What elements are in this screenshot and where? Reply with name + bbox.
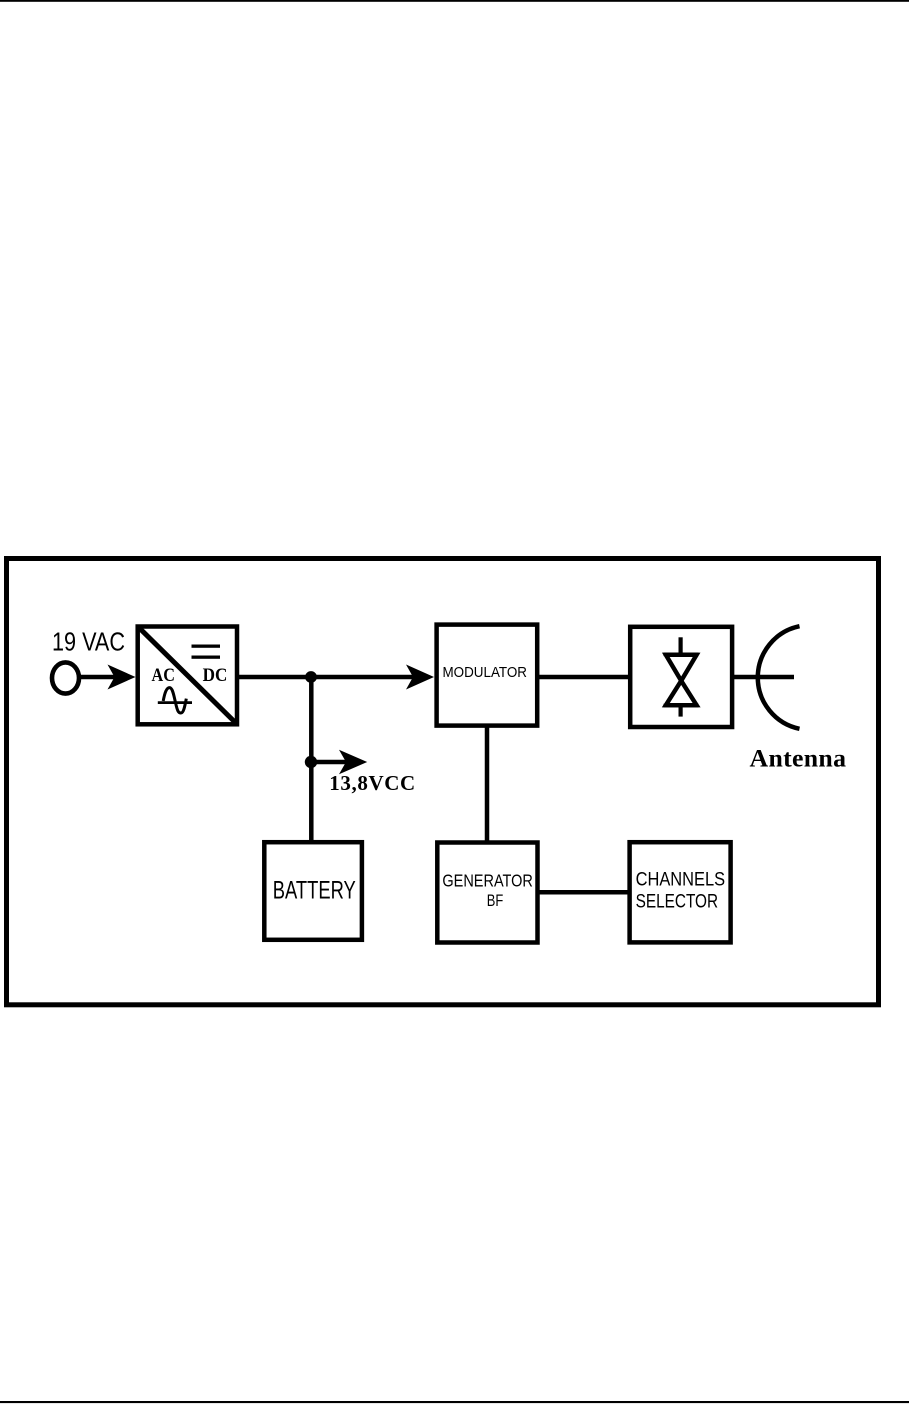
svg-text:Antenna: Antenna <box>750 744 847 773</box>
wire converter to modulator <box>239 675 414 680</box>
wire junction 1 to battery <box>309 677 314 841</box>
svg-text:CHANNELS: CHANNELS <box>636 869 726 891</box>
wire input to converter <box>79 675 117 680</box>
modulator box <box>437 625 538 726</box>
arrowhead 13.8VCC <box>339 750 367 775</box>
bottom rule <box>0 1401 909 1403</box>
arrowhead into converter <box>108 665 136 690</box>
node junction 2 <box>305 756 317 768</box>
svg-text:13,8VCC: 13,8VCC <box>329 771 415 795</box>
diode D1 bottom lead <box>678 707 682 717</box>
wire diode box to antenna <box>732 675 794 680</box>
AC sine symbol wave <box>163 688 186 713</box>
diode box <box>630 627 732 727</box>
wire modulator to diode box <box>537 675 630 680</box>
svg-text:BATTERY: BATTERY <box>273 876 356 904</box>
AC sine symbol baseline <box>158 701 192 704</box>
wire generator to channels selector <box>538 890 629 895</box>
node junction 1 <box>305 671 317 683</box>
svg-text:DC: DC <box>203 665 228 686</box>
diode D1 symbol top lead <box>678 637 682 653</box>
AC/DC converter U1 box <box>138 627 237 725</box>
svg-text:AC: AC <box>152 665 175 686</box>
antenna arc <box>758 626 800 729</box>
diagram frame <box>7 559 879 1005</box>
DC symbol bar 2 <box>192 656 221 659</box>
DC symbol bar 1 <box>192 645 221 648</box>
generator BF box <box>437 843 537 943</box>
channels selector box <box>630 842 731 942</box>
top rule <box>0 0 909 2</box>
wire modulator to generator BF <box>485 726 490 841</box>
diode D1 top bar <box>664 652 699 656</box>
svg-text:SELECTOR: SELECTOR <box>636 891 719 913</box>
svg-text:19 VAC: 19 VAC <box>52 629 125 657</box>
wire 13.8VCC branch <box>311 760 346 765</box>
svg-text:BF: BF <box>487 892 504 910</box>
connector J1 (19 VAC input) <box>52 662 79 693</box>
diode D1 upper triangle <box>666 655 697 681</box>
converter diagonal <box>139 628 236 723</box>
svg-text:GENERATOR: GENERATOR <box>442 871 533 891</box>
arrowhead into modulator <box>406 665 434 690</box>
diode D1 lower triangle <box>666 681 697 705</box>
diode D1 bottom bar <box>664 704 699 708</box>
svg-text:MODULATOR: MODULATOR <box>443 665 528 681</box>
battery box <box>264 842 362 940</box>
